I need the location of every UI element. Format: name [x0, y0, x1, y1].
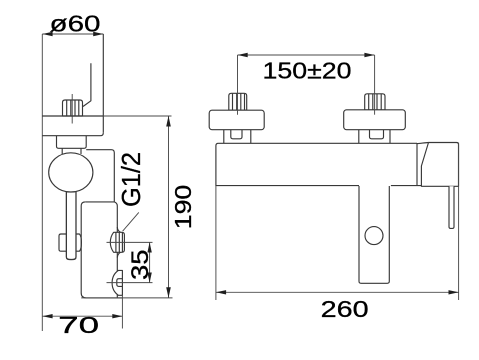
svg-text:G1/2: G1/2	[118, 152, 146, 207]
dimension ø60 line	[42, 33, 103, 35]
150±20 left arrow	[238, 53, 248, 57]
right union inner recess	[370, 130, 384, 139]
left union tailpiece	[224, 130, 251, 144]
dimension ø60 right arrow	[93, 32, 103, 36]
dimension ø60 left arrow	[42, 32, 52, 36]
svg-text:70: 70	[58, 312, 99, 338]
lower port inner step	[117, 279, 123, 287]
cartridge housing (left view)	[57, 136, 87, 149]
190 top arrow	[166, 116, 171, 127]
upper threaded port (left view)	[117, 227, 120, 258]
left union nut	[209, 110, 264, 130]
knurled cap hatch lines	[67, 100, 79, 116]
center line (left view)	[71, 94, 73, 124]
260 right extension line	[458, 143, 460, 300]
G1/2 leader line	[123, 212, 139, 231]
svg-text:260: 260	[321, 296, 369, 322]
70 right arrow	[112, 314, 122, 318]
left union cap hatch	[233, 93, 245, 110]
260 right arrow	[449, 290, 459, 294]
lower outlet box (left view)	[81, 202, 122, 298]
body bar bottom edge right part	[391, 185, 422, 187]
knurled cap (left view)	[63, 100, 83, 116]
35 dimension line	[149, 242, 151, 282]
ball joint (left view)	[49, 153, 93, 192]
190 bottom extension line	[81, 297, 172, 299]
left union inner recess	[231, 130, 242, 139]
left union knurled cap	[229, 93, 247, 110]
body bar (right view)	[216, 143, 417, 186]
handle lever tip line (left view, raised)	[83, 63, 91, 106]
right union center line	[374, 55, 376, 115]
neck above ball	[62, 148, 81, 154]
190 bottom arrow	[166, 287, 171, 298]
190 top extension line	[103, 115, 171, 117]
35 upper extension line	[107, 241, 153, 243]
35 lower extension line	[107, 282, 153, 284]
svg-text:190: 190	[170, 185, 196, 230]
shower outlet box (right view)	[359, 186, 389, 283]
wall flange plate (left view)	[42, 116, 103, 136]
150±20 right arrow	[364, 53, 374, 57]
ø60 right extension line / flange right edge	[102, 34, 104, 133]
260 left arrow	[216, 290, 226, 294]
handle rod (right view)	[449, 186, 454, 228]
right union nut	[344, 110, 406, 130]
body bar bottom edge left part	[216, 185, 359, 187]
70 left arrow	[42, 314, 52, 318]
wall line (left view)	[41, 34, 43, 331]
svg-text:35: 35	[127, 250, 154, 281]
svg-text:ø60: ø60	[50, 10, 101, 36]
150±20 dimension line	[238, 54, 375, 56]
lever rod (left view)	[66, 170, 76, 260]
260 left extension line	[215, 186, 217, 300]
handle block (right view)	[421, 143, 458, 187]
70 right extension line	[121, 295, 123, 328]
lower domed port (left view)	[112, 270, 122, 295]
70 dimension line	[42, 315, 122, 317]
right union tailpiece	[359, 130, 390, 144]
35 bottom arrow	[147, 273, 151, 283]
collar curve at bar right end	[417, 143, 428, 144]
right union cap hatch	[369, 94, 382, 110]
outlet circle	[365, 227, 383, 245]
box top edge	[85, 201, 114, 203]
valve body (left view)	[86, 150, 114, 202]
35 top arrow	[147, 242, 151, 252]
190 dimension line	[168, 116, 170, 298]
svg-text:150±20: 150±20	[263, 57, 352, 83]
260 dimension line	[216, 291, 459, 293]
rod clip (left view)	[59, 234, 81, 251]
left union center line	[237, 55, 239, 115]
right union knurled cap	[365, 94, 385, 110]
